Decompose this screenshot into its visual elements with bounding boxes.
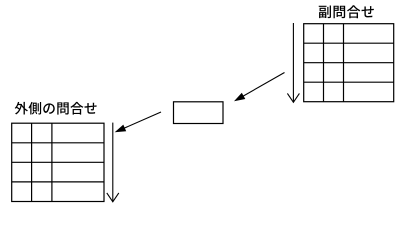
arrow: vertical scan arrow left of subquery table <box>287 23 299 102</box>
label: 外側の問合せ (outer query) <box>15 102 97 115</box>
table: subquery result grid (4 rows x 3 cols) <box>304 24 394 102</box>
arrow: vertical scan arrow right of outer query table <box>107 123 119 202</box>
box: single value result rectangle <box>174 102 224 124</box>
table: outer query grid (4 rows x 3 cols) <box>12 123 104 201</box>
arrow: from subquery toward value box <box>234 73 285 102</box>
label: 副問合せ (subquery) <box>319 5 374 18</box>
arrow: from value box toward outer query table <box>115 112 161 132</box>
